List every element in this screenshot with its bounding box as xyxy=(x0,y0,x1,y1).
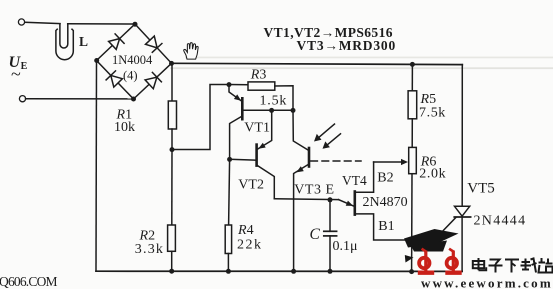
capacitor C xyxy=(324,200,337,271)
resistor R6 xyxy=(409,147,417,173)
svg-text:10k: 10k xyxy=(114,120,135,135)
terminal top-left xyxy=(18,19,24,25)
svg-text:VT3→MRD300: VT3→MRD300 xyxy=(297,38,397,53)
node C ground xyxy=(328,269,333,274)
载 xyxy=(521,259,537,273)
terminal bottom-left xyxy=(19,96,25,102)
hand cursor xyxy=(184,43,198,59)
dashed base of VT3 xyxy=(311,160,361,162)
svg-text:B1: B1 xyxy=(378,219,394,234)
light arrow 2 xyxy=(323,134,341,149)
wire VT2 collector to VT4 emitter xyxy=(274,198,338,201)
svg-text:VT5: VT5 xyxy=(467,180,495,196)
lamp L xyxy=(56,24,73,60)
wire R5 top lead xyxy=(411,64,413,90)
svg-text:~: ~ xyxy=(11,64,21,84)
node A (VT1 emitter / R3 left) xyxy=(227,82,232,87)
wire R4 top lead xyxy=(229,159,230,225)
node R1/R2 xyxy=(170,147,175,152)
resistor R5 xyxy=(408,91,417,119)
resistor R1 xyxy=(168,101,176,129)
svg-text:VT3 E: VT3 E xyxy=(294,182,334,197)
svg-text:C: C xyxy=(310,226,321,243)
svg-text:VT4: VT4 xyxy=(342,173,367,188)
svg-text:R3: R3 xyxy=(250,68,267,83)
svg-text:7.5k: 7.5k xyxy=(419,106,446,121)
svg-text:0.1μ: 0.1μ xyxy=(333,239,358,254)
node VT1 collector / VT2 base / R4 xyxy=(227,157,232,162)
svg-text:VT1: VT1 xyxy=(244,121,270,136)
bridge rectifier frame xyxy=(97,24,172,99)
wire R1 bottom lead xyxy=(171,129,173,150)
svg-text:2N4870: 2N4870 xyxy=(363,195,408,210)
wiper arrow of R6 xyxy=(374,159,408,165)
wire main top rail xyxy=(172,63,463,64)
diode D4 bottom-right xyxy=(145,72,161,88)
svg-text:2.0k: 2.0k xyxy=(419,167,446,182)
transistor VT4 (UJT) xyxy=(339,162,439,240)
light arrow 1 xyxy=(314,124,335,142)
wire R3 right lead xyxy=(275,86,293,111)
svg-text:Q606.COM: Q606.COM xyxy=(0,274,58,289)
wire node to VT1 emitter branch xyxy=(172,85,229,150)
wire bottom rail xyxy=(96,270,462,272)
node R5 top xyxy=(410,62,415,67)
node VT1 base / VT2 emitter xyxy=(269,108,274,113)
node capacitor top xyxy=(328,197,333,202)
svg-text:VT2: VT2 xyxy=(238,178,264,193)
wire left rail down xyxy=(95,61,98,272)
thyristor VT5 (SCR) xyxy=(438,206,471,271)
node R6 ground xyxy=(409,269,414,274)
watermark bug 1 (red) xyxy=(418,249,434,273)
svg-text:L: L xyxy=(79,34,88,49)
wire R6 bottom lead xyxy=(411,174,413,272)
scan streak 2 xyxy=(170,67,553,69)
node bridge top xyxy=(133,22,138,27)
wire R5 to R6 xyxy=(411,119,413,148)
diode D3 bottom-left xyxy=(106,71,122,87)
svg-text:1N4004: 1N4004 xyxy=(112,53,153,67)
node bridge left xyxy=(94,58,99,63)
wire bottom input xyxy=(26,98,134,100)
svg-text:www.eeworm.com: www.eeworm.com xyxy=(421,276,553,289)
node bridge bottom xyxy=(131,97,136,102)
wire R2 top lead xyxy=(171,150,173,226)
svg-text:3.3k: 3.3k xyxy=(135,242,164,257)
watermark site name 电子下载站 xyxy=(473,258,553,273)
watermark bug logo cap xyxy=(404,229,459,263)
svg-text:B2: B2 xyxy=(377,170,393,185)
diode D2 top-right xyxy=(146,36,162,52)
wire lamp to bridge top xyxy=(68,23,135,25)
watermark bug 2 (red) xyxy=(445,249,461,273)
node VT3 emitter ground xyxy=(291,269,296,274)
svg-text:R4: R4 xyxy=(237,223,254,238)
svg-text:2N4444: 2N4444 xyxy=(474,214,527,229)
transistor VT1 (PNP) xyxy=(229,85,293,160)
wire right rail down to VT5 xyxy=(461,65,463,207)
resistor R2 xyxy=(168,225,176,251)
站 xyxy=(539,258,553,273)
node R2 ground xyxy=(169,269,174,274)
wire R1 top lead xyxy=(171,63,173,101)
wire node A to R3 xyxy=(229,84,248,86)
svg-text:(4): (4) xyxy=(123,69,138,83)
transistor VT3 (photo NPN) xyxy=(293,110,309,271)
svg-text:22k: 22k xyxy=(237,238,263,253)
node bridge right xyxy=(169,61,174,66)
resistor R3 xyxy=(248,82,275,90)
node R3 right / VT3 collector xyxy=(291,108,296,113)
下 xyxy=(505,260,519,273)
子 xyxy=(489,260,503,273)
resistor R4 xyxy=(225,225,231,254)
wire R2 bottom lead xyxy=(171,251,173,271)
wire top input xyxy=(25,22,60,23)
svg-text:1.5k: 1.5k xyxy=(260,94,288,109)
wire R4 bottom lead xyxy=(227,254,229,272)
电 xyxy=(473,258,486,270)
diode D1 top-left xyxy=(109,34,125,50)
node R4 ground xyxy=(226,269,231,274)
transistor VT2 (PNP) xyxy=(230,110,275,198)
scan streak 1 xyxy=(185,57,553,59)
